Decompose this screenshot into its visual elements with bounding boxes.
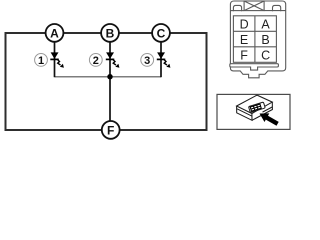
node C [152,24,170,42]
svg-text:B: B [106,26,115,40]
svg-text:D: D [240,17,249,31]
legend connector 3d body [237,95,273,120]
wire stub B to diode 2 [109,41,111,77]
wire outer loop [6,33,207,130]
node F [102,121,120,139]
wire junction to F [109,77,111,122]
svg-text:3: 3 [144,55,150,67]
connector left ear [233,5,241,11]
diode 2 (LED) [106,52,120,67]
svg-text:E: E [240,33,248,47]
diode 1 (LED) [50,52,64,67]
legend connector pin recess [249,102,266,112]
wire stub A to diode 1 [54,41,56,77]
diode 3 (LED) [157,52,171,67]
connector flange with center tab [230,64,279,70]
junction dot [107,74,112,79]
legend box [217,94,290,129]
svg-text:2: 2 [93,55,99,67]
svg-text:A: A [261,17,270,31]
node A [46,24,64,42]
svg-text:F: F [240,48,248,62]
wire stub C to diode 3 [160,41,162,77]
svg-text:F: F [107,123,114,137]
svg-text:A: A [50,26,59,40]
connector latch box with X [244,1,264,11]
label 2 [89,54,102,68]
wire middle bus (gray) [55,76,162,78]
label 1 [35,54,48,68]
legend arrow [260,113,279,125]
svg-text:C: C [157,26,166,40]
svg-text:1: 1 [38,55,44,67]
label 3 [141,54,154,68]
connector housing outline [230,1,285,78]
svg-text:B: B [261,33,269,47]
connector right ear [273,5,281,11]
svg-text:C: C [261,48,270,62]
node B [101,24,119,42]
connector pin table [233,16,276,63]
